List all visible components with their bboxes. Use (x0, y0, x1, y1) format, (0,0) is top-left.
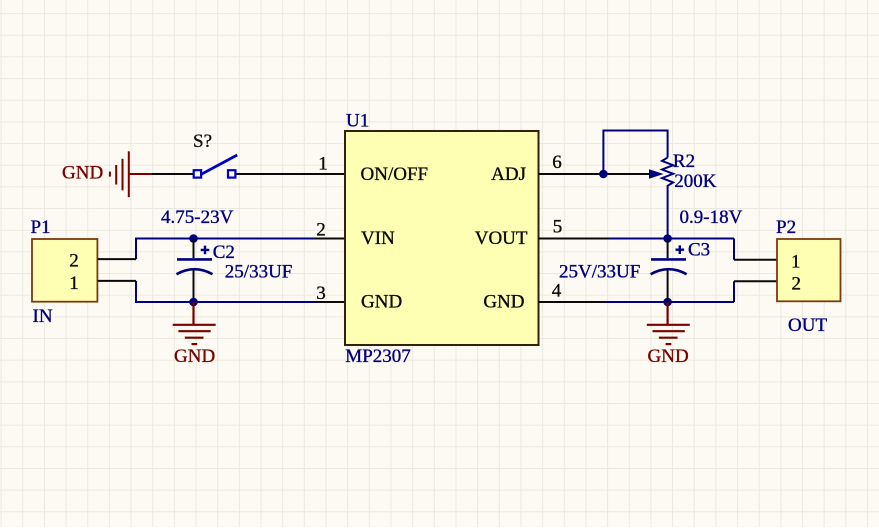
svg-text:6: 6 (552, 152, 562, 173)
svg-text:VIN: VIN (361, 228, 395, 249)
svg-text:3: 3 (316, 283, 326, 304)
svg-text:GND: GND (62, 163, 103, 184)
wire ADJ feedback loop (603, 131, 667, 175)
pin U1.4 GND (539, 301, 606, 303)
svg-text:OUT: OUT (788, 315, 827, 336)
wire P1.2 to VIN rail (136, 239, 314, 260)
junction node VOUT/C3 (663, 234, 672, 243)
svg-text:2: 2 (791, 274, 801, 295)
svg-text:C3: C3 (688, 240, 710, 261)
ground GND (under C2) (173, 302, 216, 344)
resistor R2 (potentiometer) (662, 158, 673, 239)
pin P1.2 (98, 258, 136, 260)
svg-text:R2: R2 (673, 151, 695, 172)
wire P1.1 to GND rail (136, 281, 314, 302)
junction node ADJ (599, 170, 608, 179)
wire C3 bottom to P2.2 (733, 281, 735, 302)
svg-text:2: 2 (69, 251, 79, 272)
svg-text:IN: IN (33, 306, 53, 327)
svg-text:ADJ: ADJ (491, 164, 526, 185)
junction node GND/C2 (189, 298, 198, 307)
wire GND to C3/P2 (605, 301, 734, 303)
pin U1.6 ADJ wire to R2 wiper (539, 173, 650, 175)
svg-text:1: 1 (318, 154, 328, 175)
capacitor C2 (177, 239, 213, 303)
junction node GND/C3 (663, 298, 672, 307)
svg-text:GND: GND (361, 292, 402, 313)
capacitor C3 (651, 239, 687, 303)
pin U1.5 VOUT (539, 238, 610, 240)
power port GND (left, bar style) (110, 151, 152, 197)
svg-text:GND: GND (648, 346, 689, 367)
svg-text:4: 4 (552, 281, 562, 302)
connector P1 (32, 239, 97, 302)
svg-text:C2: C2 (213, 242, 235, 263)
svg-text:GND: GND (174, 346, 215, 367)
svg-text:1: 1 (69, 273, 79, 294)
connector P2 (777, 239, 841, 301)
pin U1.2 VIN (314, 238, 345, 240)
wire S? to U1 pin 1 (ON/OFF) (237, 173, 346, 175)
svg-text:5: 5 (553, 217, 563, 238)
wiper arrow of R2 (649, 169, 664, 179)
svg-text:U1: U1 (346, 111, 369, 132)
svg-text:P2: P2 (776, 217, 796, 238)
wire GND to S? (152, 173, 194, 175)
op-amp U1 body (MP2307) (345, 131, 539, 345)
svg-text:GND: GND (483, 292, 524, 313)
svg-text:25V/33UF: 25V/33UF (559, 262, 640, 283)
svg-text:200K: 200K (674, 171, 717, 192)
svg-text:S?: S? (193, 131, 212, 152)
svg-text:2: 2 (316, 220, 326, 241)
svg-text:ON/OFF: ON/OFF (361, 164, 429, 185)
pin P1.1 (98, 280, 136, 282)
svg-text:25/33UF: 25/33UF (225, 262, 293, 283)
svg-text:0.9-18V: 0.9-18V (680, 207, 743, 228)
pin U1.3 GND (314, 301, 345, 303)
svg-text:P1: P1 (31, 217, 51, 238)
pin P2.2 (734, 280, 777, 282)
svg-text:4.75-23V: 4.75-23V (161, 207, 234, 228)
switch S? (194, 155, 238, 178)
wire C3 top to P2.1 (733, 239, 735, 260)
pin P2.1 (734, 259, 777, 261)
wire VOUT to C3 (609, 238, 734, 240)
junction node VIN/C2 (189, 234, 198, 243)
svg-text:MP2307: MP2307 (345, 346, 410, 367)
ground GND (under C3) (647, 302, 690, 344)
svg-text:1: 1 (791, 251, 801, 272)
svg-text:VOUT: VOUT (475, 228, 528, 249)
